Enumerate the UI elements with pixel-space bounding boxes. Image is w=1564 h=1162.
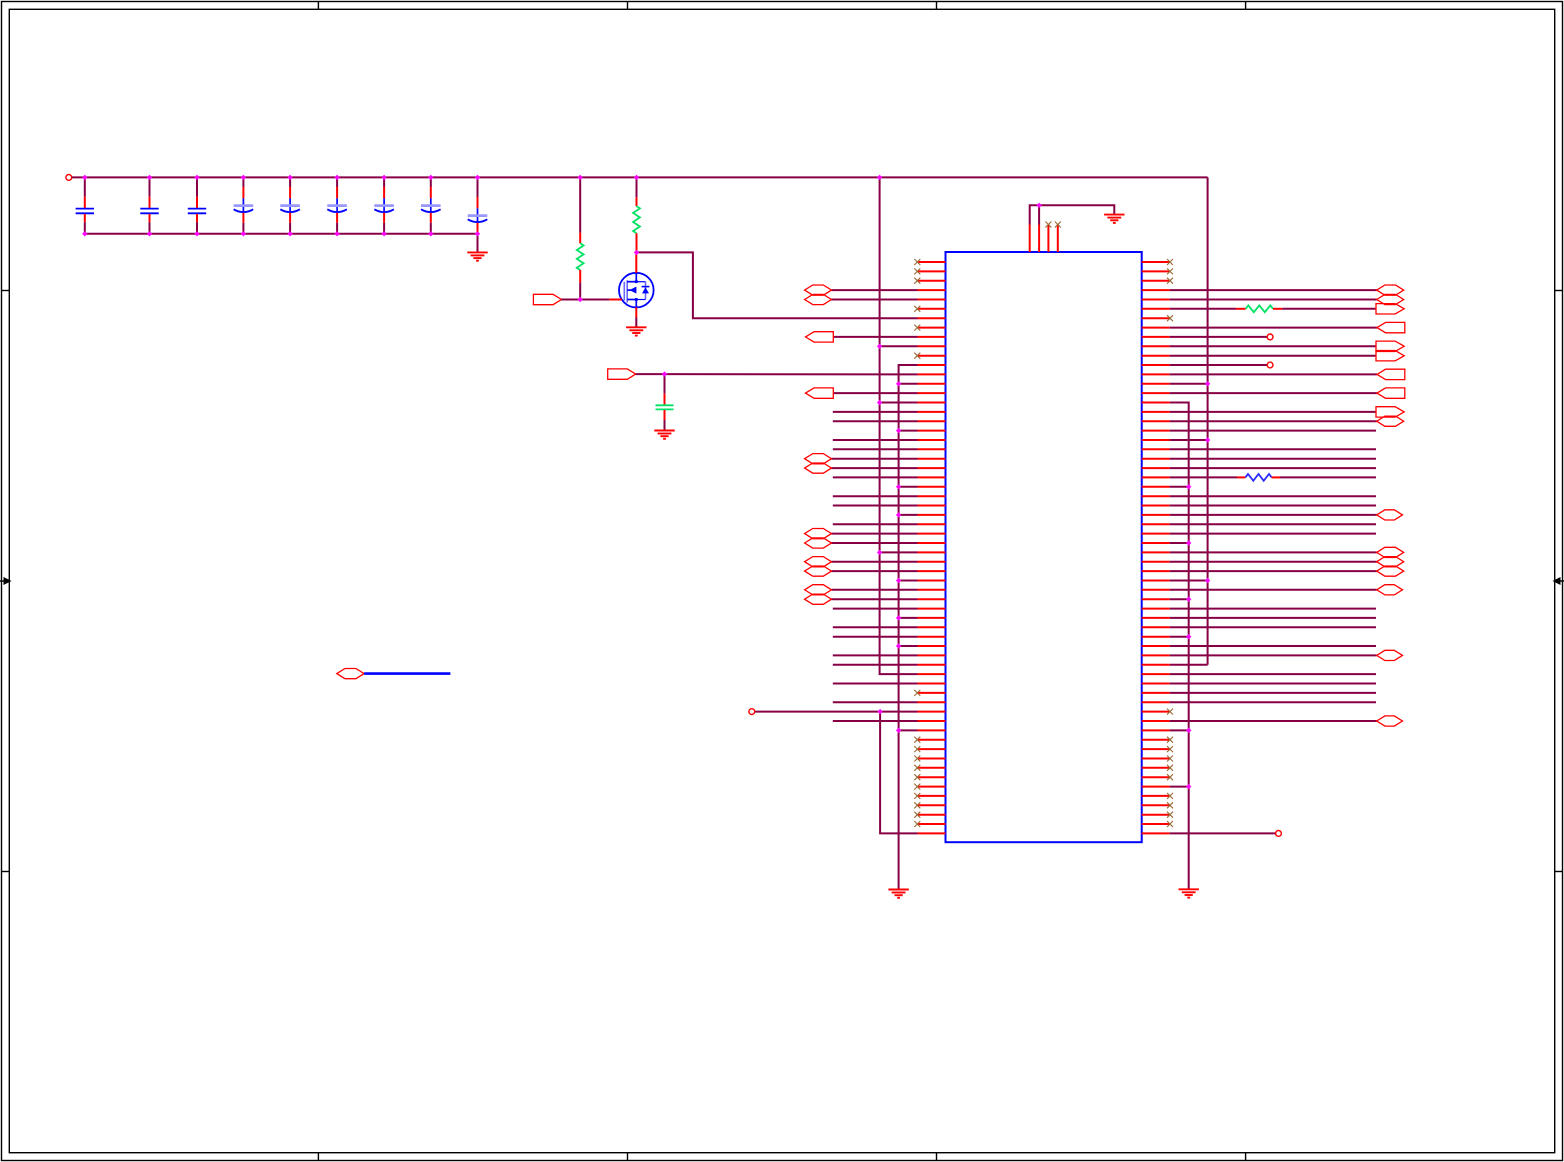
IC U1 pin R7 <box>1142 315 1173 321</box>
junction net-C pin L51 <box>896 728 901 734</box>
IC U1 pin R50 <box>1142 716 1403 726</box>
junction net-D pin R57 <box>1186 784 1191 789</box>
wire net-B vertical (pin L49 net down to pin L62) <box>880 712 917 834</box>
IC U1 pin R54 <box>1142 756 1173 762</box>
IC U1 pin L21 <box>833 448 946 450</box>
wire P2 net tag to IC pin L13 <box>636 373 918 375</box>
IC U1 pin L24 <box>833 476 946 478</box>
IC U1 pin L12 <box>918 364 946 366</box>
wire net-A vertical (rail to pin L45) <box>880 177 918 674</box>
junction net-B pin L49 <box>877 709 882 714</box>
capacitor C9 <box>468 177 488 233</box>
IC U1 pin L48 <box>833 701 946 703</box>
IC U1 pin R10 <box>1142 341 1405 351</box>
junction net-D pin R51 <box>1186 728 1191 734</box>
junction cap C4 top rail <box>241 175 246 180</box>
IC U1 pin L44 <box>833 664 946 666</box>
border zone ticks top <box>318 2 1245 10</box>
IC U1 pin R53 <box>1142 746 1173 752</box>
junction cap C5 top rail <box>287 175 292 180</box>
IC U1 pin R23 <box>1142 467 1376 469</box>
IC U1 pin L41 <box>833 636 946 638</box>
IC U1 pin R42 <box>1142 645 1376 647</box>
IC U1 pin R5 <box>1142 294 1404 304</box>
IC U1 pin R36 <box>1142 585 1403 595</box>
IC U1 pin R3 <box>1142 278 1173 284</box>
IC U1 pin L4 <box>805 285 946 295</box>
IC U1 pin L54 <box>914 756 945 762</box>
IC U1 top pin T2 <box>1038 225 1040 253</box>
IC U1 pin R43 <box>1142 650 1403 660</box>
IC U1 pin R24 <box>1142 474 1376 481</box>
junction cap C9 top rail <box>475 175 480 180</box>
IC U1 pin R31 <box>1142 542 1189 544</box>
IC U1 pin R39 <box>1142 617 1376 619</box>
wire net-D vertical (pin R16 down to ground) <box>1170 403 1189 890</box>
capacitor C1 <box>76 177 94 233</box>
IC U1 pin L1 <box>914 259 945 265</box>
junction rail-drop pin R35 <box>1205 578 1210 583</box>
border center arrow right <box>1553 577 1564 585</box>
IC U1 pin R32 <box>1142 547 1404 557</box>
junction net-D pin R25 <box>1186 484 1191 489</box>
IC U1 pin L14 <box>899 383 946 385</box>
IC U1 pin R44 <box>1142 664 1170 666</box>
junction net-C pin L14 <box>896 381 901 386</box>
IC U1 pin L61 <box>914 821 945 827</box>
IC U1 pin R57 <box>1142 786 1189 788</box>
IC U1 pin L56 <box>914 774 945 780</box>
IC U1 pin R30 <box>1142 533 1376 535</box>
junction net-A pin L32 <box>877 550 882 555</box>
IC U1 pin L36 <box>805 585 946 595</box>
IC U1 pin L34 <box>805 566 946 576</box>
junction net-A pin L10 <box>877 344 882 349</box>
capacitor C3 <box>188 177 206 233</box>
junction P2 net C10 tap <box>662 371 667 376</box>
junction net-D pin R41 <box>1186 634 1191 639</box>
IC U1 pin R17 <box>1142 407 1405 417</box>
IC U1 pin R26 <box>1142 495 1376 497</box>
resistor R2 (drain pullup, vertical) <box>633 177 640 252</box>
IC U1 pin R18 <box>1142 416 1404 426</box>
junction cap C8 top rail <box>428 175 433 180</box>
IC U1 pin R56 <box>1142 774 1173 780</box>
IC U1 pin L57 <box>914 784 945 790</box>
IC U1 pin L37 <box>805 594 946 604</box>
IC U1 pin R25 <box>1142 486 1189 488</box>
IC U1 pin R51 <box>1142 729 1189 731</box>
IC U1 pin R48 <box>1142 701 1376 703</box>
IC U1 pin L39 <box>899 617 946 619</box>
IC U1 pin L10 <box>880 345 946 347</box>
IC U1 pin L46 <box>833 683 946 685</box>
junction cap C3 top rail <box>194 175 199 180</box>
IC U1 pin R28 <box>1142 510 1403 520</box>
IC U1 pin R37 <box>1142 598 1189 600</box>
IC U1 pin L3 <box>914 278 945 284</box>
IC U1 pin L51 <box>899 729 946 731</box>
junction R2 top rail <box>634 175 639 180</box>
junction cap C1 top rail <box>82 175 87 180</box>
capacitor C4 <box>234 177 254 233</box>
IC U1 pin R19 <box>1142 430 1376 432</box>
junction cap C2 bottom rail <box>147 231 152 236</box>
IC U1 pin R11 <box>1142 351 1405 361</box>
wire rail-drop corner to pin R44 <box>1170 664 1208 666</box>
port P2 tag (signal with filter cap) <box>608 369 636 379</box>
junction R1 top rail <box>578 175 583 180</box>
IC U1 pin L30 <box>805 529 946 539</box>
wire C10 to ground <box>664 420 666 431</box>
IC U1 pin R58 <box>1142 793 1173 799</box>
IC U1 pin L52 <box>914 737 945 743</box>
IC U1 body <box>946 252 1142 842</box>
IC U1 pin R61 <box>1142 821 1173 827</box>
capacitor C6 <box>327 177 347 233</box>
junction rail-drop pin R20 <box>1205 437 1210 442</box>
junction net-C pin L39 <box>896 615 901 620</box>
IC U1 pin L33 <box>805 557 946 567</box>
junction net-A pin L16 <box>877 400 882 405</box>
junction net-C pin L25 <box>896 484 901 489</box>
IC U1 pin R14 <box>1142 383 1208 385</box>
border zone ticks left <box>2 291 10 872</box>
transistor Q1 N-MOSFET <box>609 252 653 317</box>
junction cap C1 bottom rail <box>82 231 87 236</box>
IC U1 pin R1 <box>1142 259 1173 265</box>
IC U1 pin L40 <box>833 626 946 628</box>
wire VCC rail right vertical drop to IC pins <box>1207 177 1209 664</box>
wire VCC top rail horizontal <box>72 176 1208 178</box>
IC U1 pin R21 <box>1142 448 1376 450</box>
IC U1 top pin T4 (no connect) <box>1055 222 1061 253</box>
wire gate net junction to Q1 gate <box>580 299 609 301</box>
IC U1 pin L18 <box>833 420 946 422</box>
IC U1 pin R22 <box>1142 458 1376 460</box>
IC U1 pin R46 <box>1142 683 1376 685</box>
IC U1 pin L27 <box>833 505 946 507</box>
resistor R1 (gate pulldown, vertical) <box>577 177 584 299</box>
junction net-C pin L35 <box>896 578 901 583</box>
IC U1 pin R62 <box>1142 831 1282 837</box>
IC U1 pin R4 <box>1142 285 1404 295</box>
IC U1 pin L58 <box>914 793 945 799</box>
IC U1 pin R59 <box>1142 802 1173 808</box>
capacitor C10 (green filter cap) <box>656 374 674 420</box>
IC U1 pin L15 <box>806 388 946 398</box>
junction rail-drop pin R14 <box>1205 381 1210 386</box>
IC U1 pin L9 <box>806 332 946 342</box>
IC U1 pin L45 <box>918 673 946 675</box>
junction net-A at rail <box>877 175 882 180</box>
wire net-C vertical (pin L12 down to ground) <box>899 365 918 890</box>
junction cap C9 bottom rail <box>475 231 480 236</box>
IC U1 pin L55 <box>914 765 945 771</box>
IC U1 pin L35 <box>899 580 946 582</box>
IC U1 pin R13 <box>1142 369 1405 379</box>
IC U1 pin R34 <box>1142 566 1404 576</box>
IC U1 pin L20 <box>833 439 946 441</box>
IC U1 pin L49 <box>749 709 946 715</box>
ground GND left of IC <box>888 890 908 898</box>
IC U1 pin L59 <box>914 802 945 808</box>
junction R2 bottom drain node <box>634 250 639 255</box>
junction net-C pin L19 <box>896 428 901 433</box>
junction gate net R1 bottom <box>578 297 583 302</box>
IC U1 pin L8 <box>914 325 945 331</box>
IC U1 pin L5 <box>805 294 946 304</box>
wire bottom rail ground stem <box>477 234 479 253</box>
junction cap C4 bottom rail <box>241 231 246 236</box>
IC U1 pin R38 <box>1142 608 1376 610</box>
junction cap C8 bottom rail <box>428 231 433 236</box>
IC U1 pin R16 <box>1142 402 1170 404</box>
junction cap C7 top rail <box>381 175 386 180</box>
wire top pin T2 riser <box>1038 205 1040 224</box>
IC U1 pin L2 <box>914 268 945 274</box>
junction cap C6 bottom rail <box>334 231 339 236</box>
IC U1 pin R40 <box>1142 626 1376 628</box>
wire gate net tag to junction <box>561 299 580 301</box>
junction cap C5 bottom rail <box>287 231 292 236</box>
IC U1 pin R41 <box>1142 636 1189 638</box>
capacitor C2 <box>140 177 158 233</box>
junction net-D pin R37 <box>1186 597 1191 602</box>
IC U1 pin R6 <box>1142 304 1405 314</box>
IC U1 pin L19 <box>899 430 946 432</box>
IC U1 top pin T1 <box>1029 225 1031 253</box>
junction net-C pin L28 <box>896 512 901 517</box>
IC U1 pin L31 <box>805 538 946 548</box>
IC U1 pin R49 <box>1142 709 1173 715</box>
IC U1 pin R29 <box>1142 523 1376 525</box>
IC U1 pin L60 <box>914 812 945 818</box>
IC U1 pin R9 <box>1142 334 1273 340</box>
port P3 hexagon (bus stub, lower left) <box>337 669 364 679</box>
IC U1 pin L16 <box>880 402 946 404</box>
IC U1 pin L32 <box>880 551 946 553</box>
IC U1 pin R33 <box>1142 557 1404 567</box>
ground GND top of IC <box>1104 215 1124 223</box>
IC U1 pin R20 <box>1142 439 1208 441</box>
IC U1 pin R12 <box>1142 362 1273 368</box>
IC U1 pin L53 <box>914 746 945 752</box>
IC U1 pin L23 <box>805 463 946 473</box>
junction cap C3 bottom rail <box>194 231 199 236</box>
junction net-D pin R31 <box>1186 540 1191 545</box>
border zone ticks right <box>1555 291 1563 872</box>
wire Q1 source to ground <box>635 318 637 328</box>
junction cap C2 top rail <box>147 175 152 180</box>
border zone ticks bottom <box>318 1153 1245 1161</box>
junction net-C pin L42 <box>896 643 901 648</box>
wire top ground net <box>1030 205 1115 224</box>
junction cap C7 bottom rail <box>381 231 386 236</box>
IC U1 pin L29 <box>833 523 946 525</box>
IC U1 pin R15 <box>1142 388 1405 398</box>
ground GND cap bank <box>467 252 487 260</box>
bus wire (blue) from P3 <box>364 672 450 675</box>
IC U1 pin L43 <box>833 654 946 656</box>
ground GND Q1 source <box>626 327 646 335</box>
IC U1 pin L11 <box>914 353 945 359</box>
ground GND C10 <box>654 431 674 439</box>
IC U1 pin R8 <box>1142 322 1405 332</box>
capacitor C8 <box>421 177 441 233</box>
IC U1 pin L50 <box>833 720 946 722</box>
IC U1 pin R52 <box>1142 737 1173 743</box>
IC U1 pin L28 <box>899 514 946 516</box>
IC U1 pin L25 <box>899 486 946 488</box>
IC U1 pin L38 <box>833 608 946 610</box>
IC U1 pin L62 <box>918 832 946 834</box>
IC U1 pin R35 <box>1142 580 1208 582</box>
capacitor C7 <box>374 177 394 233</box>
ground GND right of IC <box>1179 889 1199 897</box>
IC U1 pin L6 <box>914 306 945 312</box>
wire capacitor bank bottom rail <box>85 233 478 235</box>
wire drain net Q1 to IC pin L7 <box>637 252 918 318</box>
port P1 tag (gate signal, far left) <box>533 294 561 304</box>
IC U1 pin L13 <box>918 373 946 375</box>
IC U1 pin R55 <box>1142 765 1173 771</box>
junction cap C6 top rail <box>334 175 339 180</box>
IC U1 top pin T3 (no connect) <box>1045 222 1051 253</box>
node VCC rail terminal circle <box>66 175 72 181</box>
IC U1 pin R47 <box>1142 692 1376 694</box>
IC U1 pin L7 <box>918 317 946 319</box>
IC U1 pin L42 <box>899 645 946 647</box>
IC U1 pin L26 <box>833 495 946 497</box>
border center arrow left <box>0 577 12 585</box>
IC U1 pin L17 <box>833 411 946 413</box>
IC U1 pin L47 <box>914 690 945 696</box>
IC U1 pin R45 <box>1142 673 1376 675</box>
IC U1 pin R60 <box>1142 812 1173 818</box>
IC U1 pin R2 <box>1142 268 1173 274</box>
IC U1 pin L22 <box>805 454 946 464</box>
IC U1 pin R27 <box>1142 505 1376 507</box>
junction top ground net <box>1036 203 1041 208</box>
capacitor C5 <box>280 177 300 233</box>
